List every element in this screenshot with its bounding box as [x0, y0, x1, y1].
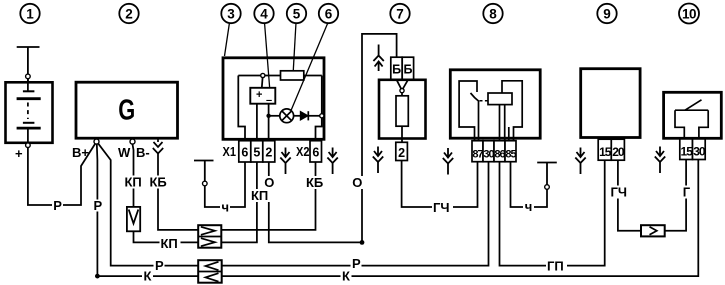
svg-text:X2: X2 [296, 144, 310, 159]
warning lamp 6 [280, 109, 294, 123]
unit 9: case [581, 69, 640, 138]
wire P: B+ down to K junction [96, 144, 99, 276]
battery 1: bottom terminal circle [26, 143, 31, 148]
svg-text:+: + [256, 89, 262, 101]
svg-text:К: К [144, 269, 152, 284]
wire O label (vertical run) [351, 175, 363, 190]
svg-text:15: 15 [599, 145, 612, 159]
wire stabilizer top to bus [261, 78, 264, 88]
voltage stabilizer 4: case [250, 88, 275, 104]
upward ground arrow at sensor 7 top [373, 45, 383, 72]
wire GCh: sensor pin 2 to relay pin 87 [402, 161, 478, 208]
battery 1: top terminal circle [26, 74, 31, 79]
wire from resistor to right bus [304, 75, 322, 77]
wire GP label [546, 259, 567, 274]
wire ch: left ground to X1 pin 6 [205, 162, 245, 207]
svg-text:ч: ч [222, 200, 230, 215]
svg-text:87: 87 [472, 149, 483, 161]
svg-text:5: 5 [253, 145, 260, 159]
wire diode to right bus junction [308, 115, 319, 117]
svg-text:КП: КП [251, 188, 268, 203]
svg-text:КП: КП [125, 175, 142, 190]
relay 8: movable contact arm [471, 93, 479, 140]
svg-text:8: 8 [489, 6, 497, 21]
svg-text:10: 10 [682, 6, 696, 21]
cluster internal top bus [238, 75, 280, 77]
generator 2: case [76, 82, 178, 138]
switch 10: blade [685, 100, 702, 110]
resistor 5 [281, 71, 304, 80]
svg-text:30: 30 [483, 149, 494, 161]
ground symbol left of relay [443, 148, 453, 175]
switch 10: contact bar and legs [675, 110, 708, 139]
circled number 6 [319, 4, 338, 23]
X2 pin 6 box [310, 141, 322, 162]
svg-text:6: 6 [325, 6, 333, 21]
svg-text:2: 2 [265, 145, 272, 159]
unit 9: pin 20 box [611, 139, 625, 160]
circled number 7 [390, 4, 409, 23]
wire lamp to diode [294, 115, 301, 117]
junction dot on K line below B+ [95, 274, 100, 279]
wire K label (left) [142, 269, 153, 284]
wire P: B+ diagonal to main P run [98, 144, 198, 266]
wire P: battery plus down to corner [28, 144, 95, 205]
svg-text:КБ: КБ [150, 175, 167, 190]
circled number 5 [287, 4, 306, 23]
circled number 9 [597, 4, 616, 23]
wire ch label (left) [220, 200, 230, 215]
generator 2: B+ terminal circle [94, 139, 99, 144]
wire G label [681, 185, 692, 200]
junction dot at lamp branch [266, 114, 270, 118]
diode [300, 111, 308, 120]
svg-text:4: 4 [260, 6, 268, 21]
switch 10: case [664, 92, 722, 138]
svg-text:2: 2 [125, 6, 133, 21]
wire P: connector to relay pin 30 [222, 162, 489, 266]
sensor 7: wires from B pins converging [397, 80, 408, 89]
sensor 7: wire resistor bottom to pin 2 [401, 126, 403, 142]
relay 8: coil [488, 93, 512, 105]
wire GP: relay pin 86 to unit 9 pin 15 [500, 160, 605, 265]
wire stabilizer bottom-left to pin 5 [256, 104, 258, 141]
wire P label (near relay) [351, 256, 362, 271]
generator 2: B- ground chevrons [153, 139, 163, 154]
wire GCh label [432, 200, 453, 215]
cluster internal right wire to X2 pin 6 [316, 76, 322, 142]
svg-text:6: 6 [312, 145, 319, 159]
relay 8: fixed contact and left frame [459, 81, 477, 140]
battery 1: top body-connection T bar [17, 47, 40, 74]
svg-text:Г: Г [683, 185, 691, 200]
svg-text:9: 9 [603, 6, 611, 21]
wire O: X1 pin 2 down then right to O junction [269, 162, 362, 242]
wire KP: connector down then right to twin connector [134, 231, 199, 242]
ground symbol left of unit 9 [575, 148, 585, 175]
sensor 7: pin box 2 [396, 142, 408, 160]
circled number 2 [119, 4, 138, 23]
svg-text:1: 1 [26, 6, 34, 21]
wire P vertical label [92, 198, 103, 213]
instrument cluster 3: case [223, 58, 324, 140]
body ground point left (T-bar) [194, 161, 214, 182]
relay 8: coil terminals down to pins [500, 105, 505, 140]
svg-text:ГП: ГП [547, 259, 564, 274]
wire O label (on pin2 wire) [263, 175, 275, 190]
cluster internal left wire to pin 6 [238, 76, 245, 142]
sensor 7: junction circle [400, 89, 404, 93]
svg-text:ч: ч [525, 199, 533, 214]
relay 8: armature dashed link [480, 100, 489, 102]
X1 pin 2 box [263, 141, 275, 162]
connector on W wire (single pole, chevron down) [127, 207, 140, 231]
junction circle on right bus [320, 114, 324, 118]
svg-text:Б: Б [404, 63, 413, 77]
leader line from 5 to resistor [293, 23, 296, 71]
svg-text:Б: Б [392, 63, 401, 77]
svg-text:G: G [118, 95, 135, 127]
svg-text:W: W [118, 145, 131, 160]
ground symbol left of switch 10 [655, 147, 665, 174]
sensor 7: wire resistor top [401, 93, 403, 96]
wire K label (near relay) [341, 269, 352, 284]
svg-text:К: К [342, 269, 350, 284]
wire KB: generator B- down [158, 154, 198, 230]
generator 2: W terminal circle [130, 139, 135, 144]
wire stabilizer bottom-right to lamp junction and pin 2 [268, 104, 270, 141]
wire G: connector to switch 10 pin 15 [665, 160, 686, 231]
wire junction to lamp [269, 115, 280, 117]
svg-text:5: 5 [293, 6, 301, 21]
relay 8: right frame [502, 81, 522, 140]
wire KB label [149, 175, 169, 190]
wire KB: connector to X2 pin 6 [221, 162, 315, 230]
leader line from 3 to cluster box [225, 23, 230, 57]
svg-text:86: 86 [494, 149, 505, 161]
svg-text:Р: Р [352, 256, 361, 271]
svg-text:7: 7 [396, 6, 404, 21]
wire KP label [124, 175, 144, 190]
svg-text:Р: Р [155, 258, 164, 273]
ground symbol below-left of sensor 7 [373, 147, 383, 174]
wire KP: connector to X1 pin 5 [221, 162, 257, 242]
wire KB label (on X2 wire) [305, 175, 326, 190]
wire KP label (horizontal run) [160, 236, 181, 251]
circled number 10 [679, 4, 699, 24]
wire O: vertical up to sensor 7 loop [362, 34, 397, 243]
leader line from 6 to warning lamp [291, 23, 328, 111]
wire KP label (on pin5 wire) [250, 188, 271, 203]
wire K: from junction right to connector [97, 275, 198, 277]
wire P label (left run) [154, 258, 165, 273]
X1 pin 5 box [251, 141, 263, 162]
svg-text:ГЧ: ГЧ [433, 200, 450, 215]
wire KP: generator W down [133, 144, 134, 207]
ground symbol right of X2 [327, 148, 337, 175]
wire P label (battery run) [52, 198, 63, 213]
unit 9: pin 15 box [598, 139, 612, 160]
circled number 1 [20, 4, 39, 23]
twin connector (P/K lines) [198, 260, 222, 283]
sensor 7: pin box B left [391, 57, 402, 80]
sensor 7: case [379, 80, 426, 139]
svg-text:30: 30 [693, 145, 706, 159]
wire ch label (right) [523, 199, 534, 214]
sensor 7: internal resistor [396, 96, 408, 126]
circled number 8 [483, 4, 502, 23]
single connector on GCh/G line [641, 225, 665, 236]
ground symbol right of X1 [280, 148, 290, 175]
svg-text:X1: X1 [223, 144, 237, 159]
leader line from 4 to voltage stabilizer [265, 23, 270, 88]
svg-text:Р: Р [53, 198, 62, 213]
wire GCh label (right side) [610, 185, 631, 200]
junction dot O line [360, 240, 365, 245]
battery 1: case [6, 82, 53, 143]
switch 10: pin 15 box [680, 139, 693, 160]
svg-text:6: 6 [241, 145, 248, 159]
svg-text:О: О [352, 175, 362, 190]
wire K: connector to switch pin 30 [222, 160, 699, 276]
twin connector (KB/KP lines) [198, 225, 221, 248]
svg-text:85: 85 [505, 149, 516, 161]
relay 8: pin 87 box [472, 141, 483, 162]
circled number 4 [254, 4, 273, 23]
relay 8: pin 86 box [494, 141, 505, 162]
wire GCh: unit 9 pin 20 down right to connector [618, 160, 641, 231]
junction circle on top bus [261, 73, 265, 77]
switch 10: pin 30 box [693, 139, 706, 160]
relay 8: case [450, 70, 540, 138]
svg-text:+: + [15, 146, 23, 161]
svg-text:3: 3 [227, 6, 235, 21]
svg-text:20: 20 [612, 145, 625, 159]
svg-text:КП: КП [161, 236, 178, 251]
svg-text:2: 2 [398, 146, 405, 160]
relay 8: pin 30 box [483, 141, 494, 162]
terminal circle on left T-bar stem [203, 181, 208, 186]
X1 pin 6 box [239, 141, 251, 162]
svg-text:Р: Р [94, 198, 103, 213]
terminal circle on right T-bar stem [545, 185, 550, 190]
sensor 7: pin box B right [402, 57, 413, 80]
svg-text:15: 15 [681, 145, 694, 159]
relay 8: pin 85 box [505, 141, 516, 162]
body ground point right (T-bar) [537, 163, 557, 185]
svg-text:КБ: КБ [306, 175, 323, 190]
svg-text:В-: В- [136, 145, 150, 160]
svg-text:ГЧ: ГЧ [611, 185, 628, 200]
battery 1: cell plates [17, 79, 41, 143]
circled number 3 [221, 4, 240, 23]
wire ch: relay pin 85 to right body ground [511, 162, 548, 208]
battery 1: stub from circle to case [27, 79, 29, 82]
